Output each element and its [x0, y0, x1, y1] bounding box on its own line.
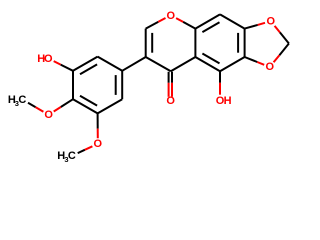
bond C3p-C4p: [72, 71, 74, 99]
bond C5p-O (half red): [97, 113, 99, 128]
svg-text:O: O: [266, 61, 275, 73]
bond C8a=C8 double: [195, 14, 220, 28]
bond C3-C1prime (aryl link): [122, 57, 146, 71]
svg-text:O: O: [167, 10, 176, 22]
svg-text:C: C: [68, 150, 76, 162]
bond C6-C5: [220, 57, 245, 71]
svg-text:O: O: [44, 109, 53, 121]
bond C4-C4a: [171, 57, 196, 71]
bond C8-C7: [220, 14, 245, 28]
svg-text:H: H: [224, 95, 232, 107]
bond C4p=C5p double: [73, 99, 98, 113]
chemical structure diagram: isoflavone derivative: [0, 0, 300, 176]
bond C7-Ot (half red): [245, 25, 258, 29]
svg-text:C: C: [18, 94, 26, 106]
svg-text:O: O: [166, 95, 175, 107]
bond C4a=C5 double: [195, 57, 220, 71]
bond C4a-C8a (ring fusion): [194, 29, 196, 57]
bond C5p-C6p: [98, 99, 123, 113]
bond C2=C3 double: [145, 29, 147, 57]
bond O-CH3 (half red): [85, 146, 93, 150]
bond C3p-OH (half red): [61, 65, 73, 71]
bond C1p-C2p: [98, 57, 123, 71]
bond C6p=C1p double: [121, 71, 123, 99]
svg-text:O: O: [267, 16, 276, 28]
bond C6=C7 double: [244, 29, 246, 57]
bond O-CH3 (half red): [36, 107, 44, 112]
bond Ot-CH2 (half red): [275, 26, 280, 33]
bond C5-OH (half red): [219, 71, 221, 83]
bond C4=O ketone double (half red): [168, 72, 170, 83]
bond Ob-C6 (half red): [257, 62, 264, 65]
bond C3-C4: [146, 57, 171, 71]
bond O1-C2 (half red): [158, 18, 165, 22]
bond C4p-O (half red): [61, 99, 73, 107]
bond CH2-Ob (half red): [279, 44, 289, 56]
svg-text:O: O: [94, 138, 103, 150]
svg-text:O: O: [44, 53, 53, 65]
bond C8a-O1 (half red): [183, 22, 195, 29]
bond C2p=C3p double: [73, 57, 98, 71]
